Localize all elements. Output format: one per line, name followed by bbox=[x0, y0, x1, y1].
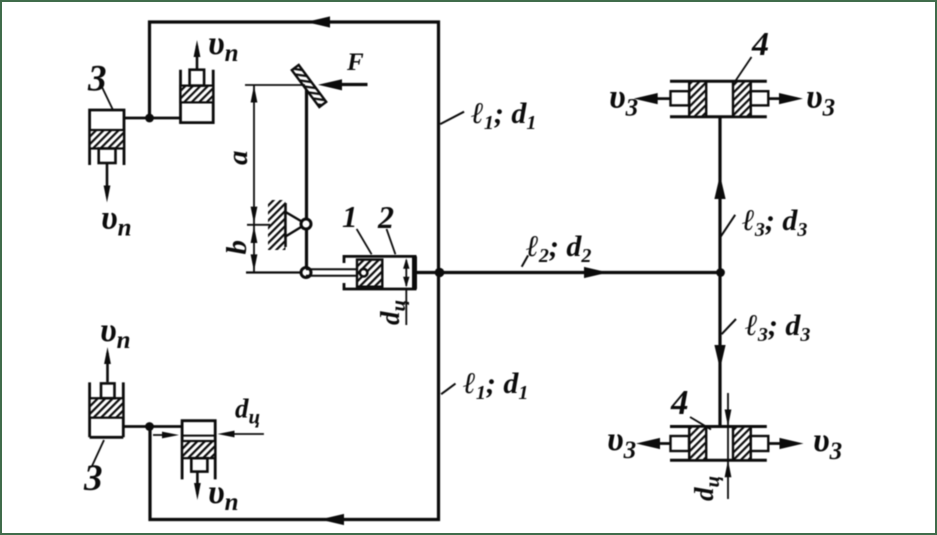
svg-text:3: 3 bbox=[87, 59, 107, 100]
svg-text:3: 3 bbox=[83, 458, 103, 499]
svg-text:dц: dц bbox=[689, 476, 724, 501]
svg-text:ℓ1; d1: ℓ1; d1 bbox=[463, 367, 528, 404]
svg-text:υп: υп bbox=[100, 312, 131, 354]
svg-text:υп: υп bbox=[101, 200, 132, 242]
svg-text:4: 4 bbox=[751, 26, 769, 63]
svg-text:υ3: υ3 bbox=[609, 79, 638, 122]
svg-text:υп: υп bbox=[208, 474, 239, 516]
svg-text:1: 1 bbox=[342, 199, 358, 234]
svg-text:ℓ2; d2: ℓ2; d2 bbox=[526, 230, 591, 267]
svg-text:υ3: υ3 bbox=[607, 421, 636, 464]
svg-text:2: 2 bbox=[377, 199, 394, 235]
svg-text:υп: υп bbox=[208, 25, 239, 67]
svg-text:4: 4 bbox=[670, 383, 689, 422]
svg-text:ℓ3; d3: ℓ3; d3 bbox=[745, 309, 810, 346]
svg-text:ℓ1; d1: ℓ1; d1 bbox=[471, 97, 536, 134]
svg-text:ℓ3; d3: ℓ3; d3 bbox=[742, 204, 807, 241]
svg-text:b: b bbox=[221, 240, 253, 255]
svg-text:dц: dц bbox=[375, 300, 410, 325]
svg-text:a: a bbox=[222, 151, 254, 166]
svg-text:dц: dц bbox=[235, 394, 260, 429]
svg-text:υ3: υ3 bbox=[813, 422, 842, 465]
svg-text:υ3: υ3 bbox=[806, 79, 835, 122]
svg-text:F: F bbox=[346, 49, 364, 76]
